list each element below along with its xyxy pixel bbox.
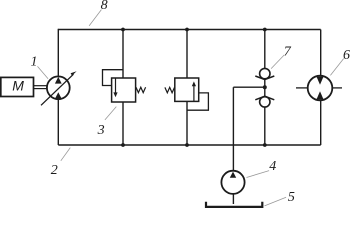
wire check valve branch (264, 30, 266, 146)
node charge junction (263, 85, 267, 89)
relief valve 3 (103, 70, 146, 102)
node bottom bus x=123 (121, 143, 125, 147)
wire charge pump riser (232, 87, 234, 204)
shaft (34, 86, 48, 89)
wire top bus (58, 29, 320, 31)
pump 1 (variable displacement) (41, 71, 77, 105)
tank 5 (206, 202, 262, 207)
node top bus x=187 (185, 28, 189, 32)
node bottom bus x=187 (185, 143, 189, 147)
svg-text:6: 6 (343, 48, 350, 63)
leader label 2 (61, 148, 71, 161)
svg-text:8: 8 (101, 0, 108, 13)
charge pump 4 (221, 171, 244, 194)
svg-text:7: 7 (284, 45, 292, 60)
svg-text:2: 2 (51, 163, 58, 178)
svg-text:4: 4 (269, 159, 276, 174)
check valve 7 upper (255, 68, 274, 79)
svg-text:1: 1 (31, 55, 38, 70)
wire charge line (233, 86, 264, 88)
node top bus x=265 (263, 28, 267, 32)
wire valve 2 branch (186, 30, 188, 146)
leader label 6 (330, 59, 343, 76)
electric motor M (1, 77, 34, 96)
leader label 3 (105, 107, 116, 120)
wire left bus (57, 29, 59, 145)
leader label 4 (247, 171, 270, 178)
relief valve 2 (165, 78, 209, 110)
leader label 5 (265, 197, 287, 206)
check valve 7 lower (255, 96, 274, 107)
svg-text:5: 5 (288, 190, 295, 205)
wire bottom bus (58, 144, 320, 146)
svg-text:M: M (12, 77, 24, 93)
svg-text:3: 3 (97, 123, 105, 138)
wire right drop to motor (320, 30, 322, 146)
leader label 7 (271, 55, 284, 69)
node bottom bus x=265 (263, 143, 267, 147)
hydraulic motor 6 (296, 76, 342, 101)
wire valve 3 branch (122, 30, 124, 146)
leader label 8 (89, 10, 101, 26)
leader label 1 (38, 66, 49, 78)
node top bus x=123 (121, 28, 125, 32)
